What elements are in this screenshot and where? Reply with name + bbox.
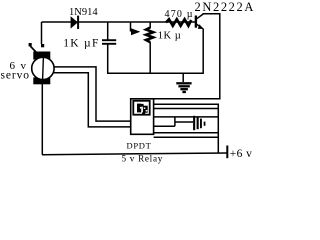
- svg-text:2N2222A: 2N2222A: [195, 0, 256, 14]
- svg-text:DPDT: DPDT: [127, 140, 152, 150]
- svg-text:1N914: 1N914: [69, 7, 98, 18]
- svg-text:5 v Relay: 5 v Relay: [122, 153, 164, 163]
- svg-text:servo: servo: [1, 69, 30, 81]
- svg-text:1K µ: 1K µ: [158, 30, 182, 41]
- svg-text:1K µF: 1K µF: [63, 38, 99, 50]
- svg-text:+6 v: +6 v: [230, 148, 252, 160]
- svg-text:470 µ: 470 µ: [165, 9, 194, 20]
